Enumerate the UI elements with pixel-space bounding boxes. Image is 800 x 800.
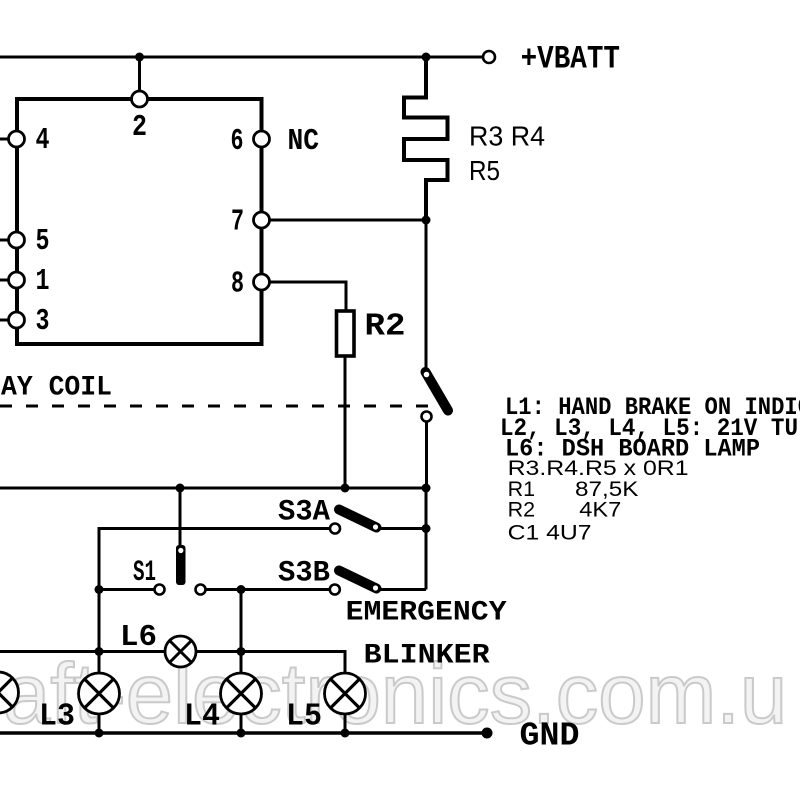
wire S1 plunger feed xyxy=(179,488,182,546)
svg-text:BLINKER: BLINKER xyxy=(364,641,490,672)
wire pin2 vertical xyxy=(138,57,141,92)
node dot S1 column xyxy=(176,484,185,493)
svg-text:S3A: S3A xyxy=(278,496,330,530)
lamp edge (cut) xyxy=(0,672,19,713)
wire L3 lamp bottom xyxy=(98,714,101,733)
wire pin5 stub xyxy=(0,239,9,242)
wire pin1 stub xyxy=(0,279,9,282)
svg-text:L6: L6 xyxy=(120,620,157,655)
pin 6 circle xyxy=(254,131,270,147)
wire top VBATT rail xyxy=(0,56,483,59)
wire L6 rail xyxy=(0,650,165,653)
pin 3 circle xyxy=(9,312,25,328)
terminal GND dot xyxy=(482,728,493,739)
svg-text:2: 2 xyxy=(132,110,147,145)
svg-text:7: 7 xyxy=(231,205,244,240)
switch lever (relay contact) xyxy=(426,372,449,411)
node dot L5 gnd xyxy=(341,729,350,738)
lamp L4 xyxy=(221,673,262,714)
svg-text:C1 4U7: C1 4U7 xyxy=(508,521,592,545)
svg-text:R5: R5 xyxy=(469,155,500,186)
svg-text:R2: R2 xyxy=(508,498,535,522)
svg-text:L4: L4 xyxy=(184,700,220,735)
node dot S3A right xyxy=(422,524,431,533)
switch S1 plunger xyxy=(176,545,186,585)
svg-text:4: 4 xyxy=(36,123,50,158)
pin 5 circle xyxy=(9,232,25,248)
wire R3R5 to switch xyxy=(425,220,428,370)
svg-text:NC: NC xyxy=(288,124,320,159)
switch terminal circle xyxy=(422,412,432,422)
wire S1 left xyxy=(99,588,155,591)
wire switch down xyxy=(425,422,428,489)
svg-text:+VBATT: +VBATT xyxy=(521,41,620,78)
wire L5 lamp bottom xyxy=(344,714,347,733)
wire pin8 to R2 xyxy=(270,282,347,311)
wire pin7 to R3R5 column xyxy=(270,219,427,222)
node dot L3 column xyxy=(95,585,104,594)
node dot L4 column xyxy=(237,585,246,594)
wire L3 column vertical xyxy=(99,529,330,673)
resistor R2 xyxy=(337,311,355,356)
lamp L6 xyxy=(165,636,196,667)
S3B pivot hole xyxy=(373,585,378,590)
S1 left contact xyxy=(155,585,165,595)
node junction dot pin7/R3R5 xyxy=(422,216,431,225)
pin 4 circle xyxy=(9,131,25,147)
node dot L3/L6 cross xyxy=(95,647,104,656)
node dot L4/L6 cross xyxy=(237,647,246,656)
wire S3A right xyxy=(381,527,426,530)
node junction dot pin2 column xyxy=(135,53,144,62)
svg-text:1: 1 xyxy=(36,264,50,299)
node dot L3 gnd xyxy=(95,729,104,738)
S3A pivot hole xyxy=(373,524,378,529)
svg-text:6: 6 xyxy=(231,124,244,159)
switch pivot hole xyxy=(424,372,430,378)
svg-text:GND: GND xyxy=(520,718,580,755)
switch S3B xyxy=(330,585,340,595)
switch S3A xyxy=(330,524,340,534)
S3A lever xyxy=(339,510,377,528)
wire L4 lamp bottom xyxy=(240,714,243,733)
resistor R3 R4 R5 meander xyxy=(404,57,448,220)
S3B lever xyxy=(339,571,377,589)
relay box U1 xyxy=(17,99,262,344)
wire S3B right xyxy=(381,588,426,591)
svg-text:S3B: S3B xyxy=(278,557,330,591)
wire emergency column vertical xyxy=(425,488,428,590)
svg-text:R3 R4: R3 R4 xyxy=(469,121,545,152)
node junction dot R3R5 column xyxy=(422,53,431,62)
node dot switch column xyxy=(422,484,431,493)
svg-text:R2: R2 xyxy=(365,310,406,345)
svg-text:5: 5 xyxy=(36,224,50,259)
wire mid rail y488 xyxy=(0,487,426,490)
svg-text:3: 3 xyxy=(36,304,50,339)
dashed separator line xyxy=(0,405,428,408)
wire pin4 stub xyxy=(0,138,9,141)
S1 right contact xyxy=(196,585,206,595)
wire L4 column xyxy=(240,590,243,674)
wire L6 to L5 column xyxy=(196,652,345,674)
svg-text:EMERGENCY: EMERGENCY xyxy=(346,598,507,629)
wire GND rail xyxy=(0,731,487,735)
wire R2 bottom xyxy=(344,356,347,488)
svg-text:L5: L5 xyxy=(286,700,322,735)
terminal +VBATT xyxy=(483,51,495,63)
svg-text:AY COIL: AY COIL xyxy=(1,373,112,404)
pin 1 circle xyxy=(9,272,25,288)
lamp L3 xyxy=(79,673,120,714)
pin 7 circle xyxy=(254,212,270,228)
wire pin3 stub xyxy=(0,319,9,322)
svg-text:8: 8 xyxy=(231,267,244,302)
pin 2 circle xyxy=(132,91,148,107)
svg-text:L3: L3 xyxy=(39,700,75,735)
S1 pivot hole xyxy=(178,548,183,553)
wire S1 right to S3B xyxy=(206,588,331,591)
svg-text:S1: S1 xyxy=(133,556,156,590)
svg-text:4K7: 4K7 xyxy=(579,498,621,522)
node dot L4 gnd xyxy=(237,729,246,738)
lamp L5 xyxy=(325,673,366,714)
node dot R2 column xyxy=(341,484,350,493)
pin 8 circle xyxy=(254,274,270,290)
